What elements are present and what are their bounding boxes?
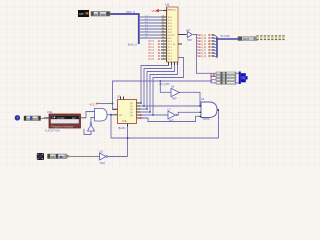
svg-text:35: 35: [162, 27, 164, 29]
svg-text:P2.0/A8: P2.0/A8: [221, 35, 231, 38]
svg-text:VCC: VCC: [90, 102, 96, 106]
svg-text:37: 37: [162, 21, 164, 23]
svg-text:CRY: CRY: [79, 13, 84, 16]
svg-text:RES8: RES8: [243, 39, 250, 41]
svg-text:U:A: U:A: [123, 120, 127, 123]
svg-text:Frequency Generator: Frequency Generator: [52, 125, 74, 128]
svg-text:7404: 7404: [100, 163, 106, 165]
svg-text:P0.2: P0.2: [168, 23, 172, 25]
svg-text:7407: 7407: [169, 121, 175, 123]
svg-text:P1.3: P1.3: [168, 50, 172, 52]
svg-text:BUS_0: BUS_0: [128, 43, 137, 47]
svg-text:SEG_H: SEG_H: [197, 54, 206, 58]
svg-text:U1: U1: [166, 3, 170, 7]
svg-text:CLKOUT=1Hz: CLKOUT=1Hz: [45, 130, 61, 132]
svg-text:7: 7: [163, 57, 164, 59]
svg-text:P1.5: P1.5: [168, 56, 172, 58]
svg-text:33: 33: [162, 33, 164, 35]
svg-text:(8x16): (8x16): [118, 126, 125, 130]
svg-text:P1.1: P1.1: [168, 44, 172, 46]
svg-text:39: 39: [162, 15, 164, 17]
svg-text:P1.2: P1.2: [168, 47, 172, 49]
svg-text:4: 4: [163, 48, 164, 50]
svg-text:P1.6: P1.6: [149, 57, 155, 61]
svg-text:U2: U2: [187, 28, 191, 32]
svg-text:P0.1: P0.1: [168, 20, 172, 22]
svg-text:7407: 7407: [187, 39, 193, 42]
svg-text:P0.0: P0.0: [168, 17, 172, 19]
svg-text:5: 5: [163, 51, 164, 53]
svg-text:1: 1: [163, 39, 164, 41]
svg-text:3: 3: [163, 45, 164, 47]
svg-text:6: 6: [163, 54, 164, 56]
svg-text:38: 38: [162, 18, 164, 20]
svg-text:32: 32: [162, 36, 164, 38]
svg-text:2: 2: [163, 42, 164, 44]
svg-text:P0.4: P0.4: [168, 29, 172, 31]
svg-text:AT89C51: AT89C51: [168, 9, 177, 12]
svg-text:7407: 7407: [172, 99, 178, 101]
svg-text:P1.0: P1.0: [168, 41, 172, 43]
svg-text:74S70: 74S70: [202, 118, 210, 121]
svg-text:P0[0..7]: P0[0..7]: [126, 10, 135, 14]
svg-text:36: 36: [162, 24, 164, 26]
svg-text:12M: 12M: [101, 14, 105, 16]
svg-text:BA_D(8): BA_D(8): [160, 82, 170, 86]
svg-text:P1.6: P1.6: [168, 59, 172, 61]
svg-text:P1.4: P1.4: [168, 53, 172, 55]
svg-text:FG1: FG1: [48, 110, 54, 114]
svg-text:P0.3: P0.3: [168, 26, 172, 28]
svg-text:P0.7: P0.7: [168, 38, 172, 40]
svg-text:34: 34: [162, 30, 164, 32]
